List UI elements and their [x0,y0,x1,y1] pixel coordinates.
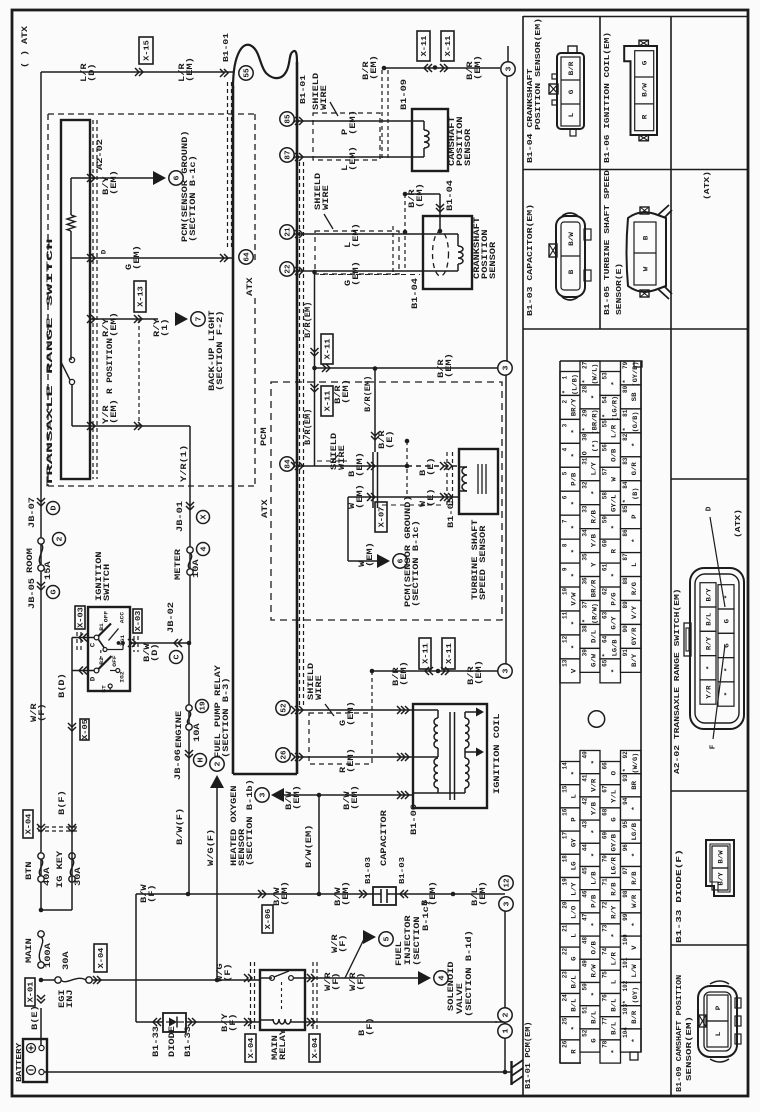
svg-text:W/R: W/R [631,894,638,908]
wire R/Y to back-up light [90,318,158,320]
wire B/W(D) ignition to meter line [129,642,189,644]
svg-text:*: * [591,760,598,764]
svg-text:R: R [571,1049,578,1054]
svg-text:LG/B: LG/B [612,639,619,656]
svg-text:R/Y: R/Y [705,637,712,650]
svg-text:53: 53 [601,372,608,380]
svg-text:SENSOR(EM): SENSOR(EM) [686,1016,694,1081]
svg-text:L/O: L/O [571,905,578,919]
svg-text:31: 31 [581,457,588,465]
svg-text:(EM): (EM) [186,57,195,82]
svg-text:58: 58 [601,492,608,500]
svg-text:W: W [611,477,618,482]
svg-text:X-06: X-06 [265,908,273,929]
svg-text:91: 91 [622,649,629,657]
svg-text:SENSOR(E): SENSOR(E) [616,263,624,315]
svg-text:JB-06: JB-06 [174,749,183,780]
svg-text:(F): (F) [339,934,348,953]
svg-text:(W/G): (W/G) [632,753,639,774]
ignition switch body [88,607,130,691]
svg-text:PCM: PCM [260,427,269,446]
svg-text:INJ: INJ [66,989,75,1008]
svg-text:21: 21 [285,227,293,237]
svg-text:B1-09 CAMSHAFT POSITION: B1-09 CAMSHAFT POSITION [676,975,684,1092]
wire B/R X-11 drop lower [314,368,316,466]
ignition coil internals [449,712,451,800]
svg-text:52: 52 [281,703,289,713]
svg-text:2: 2 [215,761,223,767]
svg-text:P/G: P/G [611,592,618,606]
svg-text:INJECTOR: INJECTOR [404,915,413,965]
svg-text:*: * [622,768,629,772]
svg-text:LG/R: LG/R [611,857,618,875]
svg-text:B1-03: B1-03 [365,857,373,884]
svg-text:(EM): (EM) [370,55,379,80]
svg-text:P/B: P/B [571,472,578,486]
PCM module body B1-01 [232,86,235,774]
svg-text:*: * [611,381,618,385]
svg-text:*: * [622,1000,629,1004]
svg-text:3: 3 [561,423,568,427]
svg-text:B: B [642,236,649,241]
svg-text:R/B: R/B [611,882,618,896]
svg-text:85: 85 [285,114,293,124]
svg-text:10A: 10A [193,723,202,742]
wire battery positive [40,1008,42,1045]
svg-text:94: 94 [622,797,629,805]
svg-text:5: 5 [384,936,392,942]
svg-text:GY/R: GY/R [631,627,638,645]
svg-text:(EM): (EM) [281,881,290,906]
PCM pin 55 [239,66,253,80]
svg-text:X-04: X-04 [312,1037,320,1058]
svg-text:4: 4 [201,546,209,552]
svg-text:B/Y: B/Y [631,653,638,667]
main relay coil [273,1019,291,1024]
svg-text:54: 54 [601,396,608,404]
svg-text:51: 51 [581,1006,588,1014]
svg-text:(EM): (EM) [110,312,119,337]
crankshaft position sensor B1-04 [423,216,472,289]
junction block JB-02 circled C [170,651,183,664]
svg-text:(EM): (EM) [110,399,119,424]
svg-text:B/R: B/R [631,1010,638,1024]
crank B/R drain [403,230,408,235]
svg-text:(F): (F) [229,1013,238,1032]
svg-text:99: 99 [622,913,629,921]
wire B(D) from ignition switch [72,637,94,639]
svg-text:43: 43 [581,821,588,829]
svg-text:76: 76 [601,994,608,1002]
svg-text:LG: LG [571,861,578,870]
transaxle range switch body [61,120,90,479]
switch R position contact [69,357,74,362]
wire B/Y to sensor ground [90,177,155,179]
svg-text:12: 12 [561,635,568,643]
svg-text:17: 17 [561,832,568,840]
wire B(D) second leg from D terminal [72,670,94,672]
svg-text:*: * [611,525,618,529]
svg-text:(F): (F) [366,1017,375,1036]
svg-text:95: 95 [622,821,629,829]
svg-text:B/L: B/L [571,975,578,989]
svg-text:TRANSAXLE RANGE SWITCH: TRANSAXLE RANGE SWITCH [45,238,55,487]
svg-text:*: * [723,667,730,672]
svg-text:24: 24 [561,994,568,1002]
shield wire dashed box crank [315,231,399,274]
svg-text:B/R(EM): B/R(EM) [364,376,373,412]
svg-text:1: 1 [503,1028,511,1034]
svg-text:OFF: OFF [103,611,110,622]
svg-text:D: D [100,250,107,255]
junction block JB-07 circled D [37,498,45,506]
svg-text:26: 26 [281,750,289,760]
svg-text:3: 3 [503,668,511,674]
svg-text:21: 21 [561,924,568,932]
svg-text:IGNITION COIL: IGNITION COIL [493,713,502,794]
svg-text:*: * [622,379,629,383]
svg-text:78: 78 [601,1040,608,1048]
svg-text:V/W: V/W [571,592,578,606]
svg-text:L: L [715,1032,722,1037]
svg-text:(SECTION: (SECTION [413,916,422,966]
svg-text:55: 55 [601,420,608,428]
svg-text:3: 3 [504,901,512,907]
connector view B1-09 [698,986,737,1057]
svg-text:*: * [571,429,578,433]
switch internal resistor [70,178,72,215]
svg-text:(D): (D) [151,643,160,662]
svg-text:36: 36 [581,577,588,585]
wire B/W (F) horizontal run [136,893,373,895]
svg-text:G/R: G/R [631,462,638,476]
svg-text:SB: SB [631,392,638,401]
svg-text:R/W: R/W [591,964,598,978]
svg-text:X-11: X-11 [423,643,431,664]
svg-text:*: * [581,619,588,623]
svg-text:B/W: B/W [641,83,648,97]
svg-text:60: 60 [601,540,608,548]
svg-text:BTN: BTN [25,861,34,880]
svg-text:2: 2 [503,1012,511,1018]
svg-text:*: * [591,830,598,834]
wire pin 52 G(EM) [276,701,290,715]
svg-text:JB-01: JB-01 [176,501,185,532]
svg-text:59: 59 [601,516,608,524]
svg-text:MAIN: MAIN [25,938,34,963]
svg-text:B2: B2 [98,657,105,665]
svg-text:(EM): (EM) [342,379,351,404]
svg-text:*: * [571,621,578,625]
svg-text:A2-02 TRANSAXLE RANGE SWITCH(E: A2-02 TRANSAXLE RANGE SWITCH(EM) [674,588,682,774]
svg-text:B/L: B/L [591,1010,598,1024]
fuse ROOM 15A [38,538,44,544]
svg-text:X-07: X-07 [379,507,387,528]
svg-text:JB-07: JB-07 [28,497,37,528]
svg-text:42: 42 [581,797,588,805]
camshaft shield drain dashed [381,70,383,158]
svg-text:(SECTION F-2): (SECTION F-2) [216,310,225,391]
svg-text:*: * [611,669,618,673]
wire pin 85 P(EM) [297,120,412,122]
svg-text:B/L: B/L [571,998,578,1012]
wire B1-04 into crank sensor [439,194,441,231]
connector view B1-33 [706,840,734,896]
svg-text:L: L [571,794,578,799]
circled 3 top [507,46,509,62]
svg-text:R/B: R/B [631,871,638,885]
svg-text:*: * [611,573,618,577]
wire B/W ignition coil ground [276,794,413,796]
svg-text:15: 15 [561,785,568,793]
svg-text:B(D): B(D) [58,673,67,698]
svg-text:ENGINE: ENGINE [175,711,184,748]
shield wire box camshaft [313,113,380,160]
svg-text:29: 29 [581,409,588,417]
svg-text:O: O [581,451,588,455]
svg-text:X-11: X-11 [421,35,429,56]
svg-text:48: 48 [581,937,588,945]
svg-text:Y: Y [591,562,598,567]
svg-text:B1-06: B1-06 [410,804,419,835]
svg-text:*: * [631,1038,638,1042]
svg-text:19: 19 [200,701,208,711]
svg-text:100: 100 [622,934,629,945]
svg-text:26: 26 [561,1040,568,1048]
svg-text:41: 41 [581,774,588,782]
svg-text:X-03: X-03 [135,610,143,631]
svg-text:BR/Y: BR/Y [571,398,578,416]
svg-text:B1-03: B1-03 [399,857,407,884]
svg-text:B/Y: B/Y [717,872,724,885]
svg-text:98: 98 [622,890,629,898]
ground arrow circled 6 sensor ground [153,171,166,185]
svg-text:D/L: D/L [591,629,598,643]
svg-text:G: G [611,817,618,822]
fuse BTN 40A [38,853,44,859]
ATX dashed wire pair at PCM right [299,162,301,706]
svg-text:Y/B: Y/B [591,801,598,815]
svg-text:X-01: X-01 [28,981,36,1002]
connector view B1-04 [557,53,584,129]
svg-text:B(F): B(F) [58,790,67,815]
connector X-13 [134,281,146,312]
svg-text:77: 77 [601,1017,608,1025]
svg-text:35: 35 [581,553,588,561]
wire B/W down to X-06 line [318,795,320,894]
svg-text:X-04: X-04 [248,1037,256,1058]
svg-text:B1-04: B1-04 [411,278,420,309]
svg-text:(EM): (EM) [349,110,358,135]
svg-text:(ATX): (ATX) [704,171,712,200]
svg-text:VALVE: VALVE [456,983,465,1014]
svg-text:G: G [51,589,59,595]
svg-text:X-11: X-11 [445,35,453,56]
svg-text:R/Y: R/Y [611,905,618,919]
svg-text:V/R: V/R [591,778,598,792]
svg-text:B/L: B/L [705,612,712,625]
svg-text:45: 45 [581,867,588,875]
svg-text:B1-05: B1-05 [447,497,456,528]
svg-text:FUEL: FUEL [395,941,404,966]
svg-text:(F): (F) [148,884,157,903]
svg-text:49: 49 [581,960,588,968]
svg-text:4: 4 [561,447,568,451]
svg-text:(EM): (EM) [351,785,360,810]
svg-text:87: 87 [285,150,293,159]
svg-text:B1-05 TURBINE SHAFT SPEED: B1-05 TURBINE SHAFT SPEED [604,169,612,315]
svg-text:32: 32 [581,481,588,489]
pin table block A [560,372,580,396]
svg-text:10A: 10A [192,559,201,578]
svg-text:*: * [581,379,588,383]
svg-text:X: X [201,514,209,520]
svg-text:G/Y: G/Y [611,616,618,630]
svg-text:X-03: X-03 [78,607,86,628]
svg-text:3: 3 [506,66,514,72]
svg-text:50: 50 [581,983,588,991]
svg-text:B1: B1 [98,622,105,630]
svg-text:BR: BR [631,780,638,789]
svg-text:(*): (*) [592,440,599,453]
right column divider lines [522,16,524,1096]
svg-text:B/R(EM): B/R(EM) [304,302,313,338]
svg-text:(E): (E) [427,488,436,507]
svg-text:B-1c): B-1c) [422,900,431,931]
svg-text:64: 64 [244,252,252,262]
svg-text:(L/B): (L/B) [572,374,579,395]
connector X-04 crossing [23,810,33,838]
svg-text:(EM): (EM) [347,748,356,773]
svg-text:B/W(F): B/W(F) [176,808,185,845]
svg-text:GY: GY [571,838,578,847]
svg-text:A2-02: A2-02 [96,139,105,170]
svg-text:44: 44 [581,844,588,852]
svg-text:WIRE: WIRE [338,445,347,470]
svg-text:(EM): (EM) [400,661,409,686]
svg-text:JB-02: JB-02 [167,602,176,633]
top B/R bus to circled 3 [382,66,387,71]
svg-text:66: 66 [601,762,608,770]
svg-text:BATTERY: BATTERY [16,1042,24,1082]
svg-text:*: * [622,499,629,503]
svg-text:R/B: R/B [591,510,598,524]
svg-text:(SECTION B-1c): (SECTION B-1c) [412,520,421,607]
svg-text:ATX: ATX [261,499,270,518]
svg-text:*: * [631,538,638,542]
diode B1-33 [163,1013,186,1032]
wire W/R to solenoid valve [345,977,425,979]
svg-text:(GY): (GY) [632,987,639,1004]
svg-text:X-11: X-11 [325,338,333,359]
svg-text:ROOM: ROOM [26,548,35,573]
svg-text:15A: 15A [44,561,53,580]
svg-text:Y/R: Y/R [705,685,712,698]
svg-text:46: 46 [581,890,588,898]
svg-text:*: * [631,443,638,447]
connector view A2-02 [690,568,744,729]
svg-text:30A: 30A [62,951,71,970]
svg-text:O/B: O/B [591,941,598,955]
svg-text:V/Y: V/Y [631,605,638,619]
junction block JB-01 circled X [186,502,194,510]
diode branch wire [135,894,137,1022]
connector X-15 [139,37,153,64]
svg-text:2: 2 [561,399,568,403]
B/R bus junction [312,366,317,371]
svg-text:V: V [571,668,578,673]
svg-text:SPEED SENSOR: SPEED SENSOR [479,525,488,600]
svg-text:D: D [90,677,97,682]
shield drain dashed turbine [405,439,410,444]
ground symbol chassis [503,1070,508,1075]
svg-text:X-15: X-15 [144,40,152,61]
svg-text:BR/R: BR/R [591,579,598,597]
svg-text:*: * [571,453,578,457]
fuse EGI INJ 30A [41,979,58,981]
svg-text:(F): (F) [332,972,341,991]
svg-text:*: * [591,992,598,996]
svg-text:B1-33 DIODE(F): B1-33 DIODE(F) [676,849,684,943]
svg-text:(EM): (EM) [293,785,302,810]
svg-text:*: * [631,806,638,810]
svg-text:ACC: ACC [119,611,126,623]
svg-text:B1-04: B1-04 [446,180,455,211]
connector X-03 right [133,609,142,633]
svg-text:L: L [631,562,638,567]
connector X-04 relay left [250,962,252,1032]
svg-text:*: * [611,1049,618,1053]
svg-text:B1-06 IGNITION COIL(EM): B1-06 IGNITION COIL(EM) [604,32,612,163]
svg-text:61: 61 [601,564,608,572]
svg-text:B1-04 CRANKSHAFT: B1-04 CRANKSHAFT [527,68,535,163]
connector X-11 pair coil [419,638,431,669]
svg-text:84: 84 [622,481,629,489]
svg-text:L: L [611,979,618,984]
svg-text:*: * [723,692,730,697]
svg-text:75: 75 [601,971,608,979]
A2-02 latch [684,623,691,656]
svg-text:92: 92 [622,751,629,759]
svg-text:V: V [631,945,638,950]
svg-text:(EM): (EM) [352,223,361,248]
svg-text:8: 8 [561,543,568,547]
pin table outline [559,361,561,1063]
svg-text:*: * [591,853,598,857]
svg-text:L/R: L/R [611,424,618,438]
svg-text:X-04: X-04 [26,813,34,834]
svg-text:40: 40 [581,751,588,759]
wire battery negative to ground [44,1071,505,1073]
svg-text:2: 2 [57,536,65,542]
svg-text:(E): (E) [386,430,395,449]
svg-text:81: 81 [622,409,629,417]
connector X-11 pair top [417,31,430,61]
svg-text:ST: ST [101,684,108,692]
svg-text:9: 9 [561,567,568,571]
transaxle range switch dashed box (ATX) [48,113,255,115]
svg-text:63: 63 [601,611,608,619]
svg-text:103: 103 [622,1004,629,1015]
svg-text:(G/B): (G/B) [632,411,639,432]
connector view B1-05 [627,212,667,292]
svg-text:G: G [568,90,575,95]
svg-text:O: O [611,770,618,775]
svg-text:W/G(F): W/G(F) [207,829,216,866]
svg-text:L/Y: L/Y [591,462,598,476]
svg-text:68: 68 [601,808,608,816]
svg-text:*: * [561,390,568,394]
